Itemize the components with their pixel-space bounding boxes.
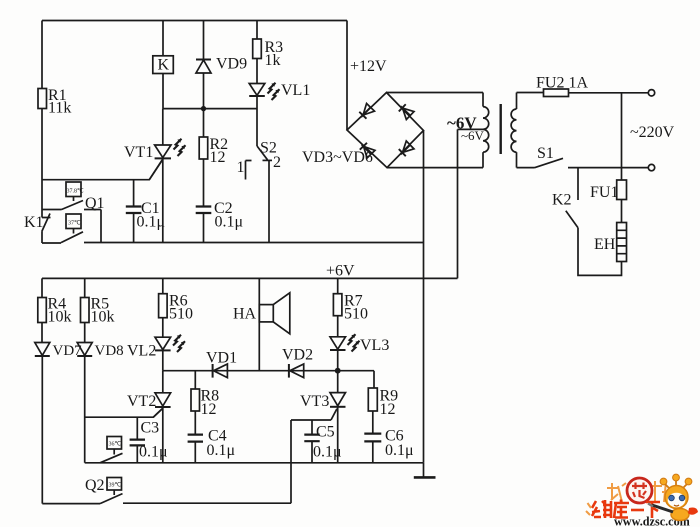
svg-text:1k: 1k — [265, 52, 281, 69]
resistor R4 — [38, 278, 72, 342]
fuse FU2 — [536, 75, 588, 97]
junction dot node B — [335, 368, 341, 374]
svg-text:36℃: 36℃ — [109, 442, 122, 448]
relay contact K2 — [552, 168, 578, 228]
wire bridge output drop — [423, 131, 425, 463]
relay coil K — [153, 21, 174, 109]
svg-text:VT1: VT1 — [124, 144, 153, 161]
switch S2 — [237, 140, 282, 243]
LED VL2 — [127, 335, 185, 371]
resistor R5 — [81, 278, 115, 342]
svg-text:K: K — [158, 57, 170, 74]
diode VD9 — [196, 21, 247, 109]
watermark circle 芯 — [627, 478, 652, 503]
bridge rectifier VD3~VD6 — [302, 93, 424, 168]
thyristor VT2 — [127, 371, 171, 463]
svg-text:HA: HA — [233, 306, 257, 323]
capacitor C4 — [188, 428, 235, 463]
wire K1 to thermostat — [42, 242, 61, 244]
transformer T secondary — [447, 93, 489, 168]
svg-text:VL1: VL1 — [281, 82, 310, 99]
svg-text:FU2 1A: FU2 1A — [536, 75, 588, 92]
thermostat 36C — [100, 437, 123, 463]
thyristor VT1 — [124, 109, 186, 243]
svg-text:2: 2 — [273, 154, 281, 171]
wire +6V rail — [42, 277, 458, 279]
wire FU1 to EH — [621, 200, 623, 223]
svg-text:12: 12 — [201, 401, 217, 418]
wire VT2 gate row — [85, 409, 163, 418]
resistor R2 — [199, 109, 228, 207]
svg-text:510: 510 — [169, 306, 193, 323]
svg-text:VD8: VD8 — [95, 343, 124, 359]
wire heater column — [621, 93, 623, 180]
heater EH — [594, 223, 627, 262]
transformer core — [500, 104, 502, 154]
svg-text:Q2: Q2 — [85, 477, 105, 494]
svg-text:0.1μ: 0.1μ — [207, 442, 236, 459]
svg-text:VD9: VD9 — [216, 56, 247, 73]
terminal bottom — [648, 164, 654, 170]
wire gate row — [42, 160, 163, 180]
svg-text:12: 12 — [210, 149, 226, 166]
wire EH bottom loop — [578, 228, 622, 276]
svg-text:VL2: VL2 — [127, 343, 156, 360]
resistor R8 — [191, 371, 219, 435]
wire Q2 to VT3 gate — [123, 420, 291, 503]
svg-text:+12V: +12V — [350, 58, 387, 75]
svg-text:K2: K2 — [552, 192, 572, 209]
svg-text:10k: 10k — [48, 309, 72, 326]
wire center tap — [458, 129, 484, 278]
svg-text:0.1μ: 0.1μ — [313, 444, 342, 461]
svg-text:37.8℃: 37.8℃ — [67, 189, 85, 195]
diode VD2 — [282, 347, 313, 378]
wire diode row — [163, 371, 374, 388]
wire VD7 to Q2 — [42, 356, 100, 504]
svg-text:K1: K1 — [24, 214, 44, 231]
thermostat contact 37C — [61, 214, 83, 243]
wire node row y108 — [163, 108, 257, 110]
wire Q1 branch — [42, 209, 62, 211]
wire left branch — [42, 21, 51, 218]
svg-text:+6V: +6V — [326, 263, 355, 280]
svg-text:0.1μ: 0.1μ — [385, 442, 414, 459]
thermostat Q1 — [62, 182, 105, 212]
svg-text:39℃: 39℃ — [109, 483, 122, 489]
watermark mascot — [648, 474, 698, 520]
svg-text:0.1μ: 0.1μ — [137, 214, 166, 231]
wire primary top — [517, 92, 544, 94]
svg-text:S1: S1 — [537, 145, 554, 162]
ground — [414, 463, 436, 478]
svg-text:VT3: VT3 — [300, 393, 329, 410]
resistor R9 — [368, 388, 398, 434]
resistor R6 — [159, 278, 193, 337]
fuse FU1 — [590, 180, 627, 201]
svg-text:VD3~VD6: VD3~VD6 — [302, 149, 373, 166]
wire VD8 column — [84, 356, 86, 463]
thyristor VT3 — [291, 393, 346, 463]
svg-text:1: 1 — [237, 159, 245, 176]
wire Q1 to bottom rail — [84, 210, 101, 243]
svg-text:~220V: ~220V — [630, 124, 675, 141]
capacitor C1 — [126, 180, 165, 243]
svg-text:12: 12 — [380, 401, 396, 418]
svg-text:VT2: VT2 — [127, 393, 156, 410]
wire bridge to transformer top — [387, 92, 484, 94]
LED VL3 — [330, 334, 389, 392]
diode VD8 — [77, 343, 123, 360]
thermostat Q2 — [85, 477, 123, 504]
svg-text:C3: C3 — [141, 420, 160, 437]
svg-text:VL3: VL3 — [360, 337, 389, 354]
relay contact K1 — [24, 214, 50, 244]
capacitor C5 — [304, 420, 341, 463]
terminal top — [648, 90, 654, 96]
switch S1 — [517, 145, 564, 168]
wire top rail — [42, 20, 347, 22]
capacitor C6 — [364, 428, 413, 463]
LED VL1 — [249, 82, 310, 146]
watermark 维库一下 — [592, 500, 660, 519]
wire lower mains — [568, 167, 648, 169]
speaker HA — [233, 278, 290, 370]
diode VD7 — [35, 343, 82, 360]
watermark dashes — [586, 503, 591, 515]
wire +12V drop — [346, 21, 348, 131]
transformer T primary — [511, 93, 516, 168]
svg-text:510: 510 — [344, 306, 368, 323]
resistor R7 — [333, 278, 368, 336]
wire fuse to terminal — [569, 92, 649, 94]
svg-text:EH: EH — [594, 236, 616, 253]
wire bridge to transformer bottom — [387, 167, 483, 169]
svg-text:VD2: VD2 — [282, 347, 313, 364]
resistor R1 — [38, 87, 71, 117]
resistor R3 — [253, 21, 283, 84]
capacitor C3 — [130, 417, 168, 463]
svg-text:VD1: VD1 — [206, 350, 237, 367]
junction dot — [201, 106, 206, 111]
svg-text:C5: C5 — [316, 424, 335, 441]
svg-text:11k: 11k — [48, 100, 71, 117]
svg-text:0.1μ: 0.1μ — [215, 214, 244, 231]
diode VD1 — [206, 350, 237, 378]
wire bottom rail top-section — [84, 242, 424, 244]
svg-text:10k: 10k — [91, 309, 115, 326]
capacitor C2 — [196, 200, 243, 243]
svg-text:37℃: 37℃ — [68, 221, 81, 227]
watermark logo 找芯片 — [607, 481, 667, 502]
wire ground rail — [85, 462, 424, 464]
svg-text:FU1: FU1 — [590, 184, 618, 201]
